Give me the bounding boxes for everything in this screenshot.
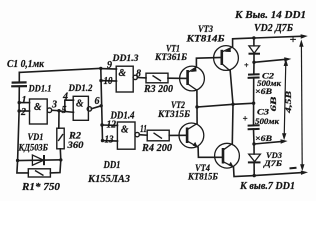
node: C3 / VD3 junction: [252, 142, 255, 145]
svg-text:&: &: [121, 124, 129, 136]
svg-text:2: 2: [20, 107, 26, 118]
wire VD3 top lead: [253, 144, 255, 154]
wire VT4 emitter down: [234, 167, 255, 177]
transistor VT1: [180, 66, 205, 91]
wire VT4 collector up: [231, 104, 234, 143]
svg-text:КТ815Б: КТ815Б: [187, 173, 218, 183]
wire R1 right leg: [50, 160, 60, 173]
svg-text:12: 12: [107, 120, 117, 131]
svg-text:DD1.3: DD1.3: [111, 54, 138, 64]
wire R2 top branch: [58, 111, 60, 129]
svg-text:К155ЛА3: К155ЛА3: [87, 173, 130, 185]
svg-text:9: 9: [107, 60, 112, 71]
arrowhead bottom rail: [301, 171, 308, 175]
node: pin 6 output junction: [100, 104, 103, 107]
wire pin 10: [101, 80, 117, 82]
svg-text:КТ814Б: КТ814Б: [185, 34, 224, 44]
svg-text:DD1: DD1: [103, 159, 121, 171]
svg-text:К выв.7 DD1: К выв.7 DD1: [239, 181, 295, 192]
wire pin 4 stub: [65, 100, 74, 112]
wire R4 to VT2 base: [169, 134, 187, 136]
svg-text:R3 200: R3 200: [143, 84, 174, 95]
resistor R2: [57, 128, 64, 149]
svg-text:6В: 6В: [268, 96, 278, 111]
wire VD3 bottom lead: [253, 163, 255, 175]
capacitor C3: [248, 125, 260, 129]
svg-text:11: 11: [140, 124, 147, 135]
wire C3 bottom lead: [253, 129, 256, 144]
svg-text:1: 1: [22, 95, 27, 106]
wire R2 bottom: [59, 149, 62, 160]
node: VD1-R1 left junction: [16, 159, 19, 162]
wire C1 top lead: [18, 72, 20, 82]
node: pin 10 junction: [99, 79, 102, 82]
wire VT1 emitter to VT3 base: [196, 58, 221, 68]
wire pin 9: [101, 68, 117, 70]
svg-text:×6В: ×6В: [255, 133, 272, 143]
transistor VT4: [215, 143, 240, 168]
svg-text:С1 0,1мк: С1 0,1мк: [7, 59, 45, 70]
svg-text:4: 4: [62, 92, 68, 103]
wire C1 bottom / left rail: [18, 86, 20, 160]
svg-text:R4 200: R4 200: [141, 143, 173, 154]
gate DD1.2: [73, 96, 91, 120]
node: VT3/VT4 collector junction: [231, 103, 234, 106]
arrowhead line2: [284, 57, 291, 61]
arrowhead line3: [281, 139, 288, 143]
wire C3 top lead: [253, 103, 255, 125]
svg-text:+: +: [243, 113, 248, 123]
svg-text:3: 3: [51, 100, 57, 111]
svg-text:КТ361Б: КТ361Б: [154, 53, 187, 63]
svg-text:360: 360: [66, 141, 83, 151]
wire DD1.4 out to R4: [139, 134, 147, 137]
wire VD1 horizontal: [18, 159, 61, 162]
svg-text:500мк: 500мк: [255, 117, 280, 126]
svg-text:КТ315Б: КТ315Б: [157, 110, 190, 120]
transistor VT2: [179, 123, 204, 148]
gate DD1.4: [117, 122, 139, 149]
wire output tap line2: [254, 59, 287, 62]
svg-text:&: &: [34, 101, 42, 113]
wire output tap line3: [254, 141, 283, 144]
svg-text:13: 13: [105, 135, 114, 146]
svg-text:К Выв. 14 DD1: К Выв. 14 DD1: [234, 10, 306, 21]
dimension arrow 6V: [282, 59, 288, 140]
wire DD1.3 out to R3: [137, 77, 146, 79]
wire VT2 emitter to VT4 base: [198, 147, 223, 157]
capacitor C2: [248, 74, 260, 78]
wire C2 top lead: [253, 62, 255, 74]
resistor R4: [147, 130, 169, 141]
svg-text:+: +: [290, 32, 297, 46]
node: C1 top / pin 9 junction: [99, 67, 102, 70]
svg-text:&: &: [119, 67, 127, 79]
svg-text:VD2 Д7Б: VD2 Д7Б: [254, 23, 294, 34]
svg-text:5: 5: [62, 105, 67, 116]
wire VT1 collector to VT2 collector: [196, 90, 198, 123]
wire top rail: [254, 36, 303, 38]
node: pin 2 junction: [17, 109, 20, 112]
node: pin 13 junction: [101, 139, 104, 142]
svg-text:+: +: [244, 61, 249, 70]
wire pin 1: [19, 102, 29, 104]
wire C2 bottom to mid node: [253, 78, 255, 104]
svg-text:DD1.1: DD1.1: [28, 84, 52, 94]
resistor R1: [28, 169, 50, 177]
minus bottom right: [290, 167, 297, 170]
wire pin 5: [59, 111, 74, 112]
wire pin 13: [103, 140, 118, 142]
svg-text:&: &: [76, 98, 84, 110]
arrowhead top rail: [301, 34, 308, 38]
wire VD2 top lead: [253, 38, 255, 46]
wire R3 to VT1 base: [168, 77, 187, 79]
svg-text:6: 6: [95, 96, 100, 107]
node: VD1-R1 right junction: [59, 158, 62, 161]
node: C2/C3 midpoint junction: [252, 102, 255, 105]
svg-text:Д7Б: Д7Б: [263, 158, 283, 168]
node line (DD1.2 out to DD1.3/DD1.4 inputs): [101, 68, 103, 140]
svg-text:DD1.2: DD1.2: [68, 84, 93, 94]
node: VD2 cathode / C2 junction: [252, 61, 255, 64]
wire pin 12: [102, 124, 118, 126]
svg-text:R1* 750: R1* 750: [21, 181, 61, 193]
wire VD2 bottom lead: [253, 54, 255, 62]
node: pin 1 junction: [18, 101, 21, 104]
wire C1 top to node line: [19, 68, 100, 72]
node: pin 12 junction: [100, 123, 103, 126]
wire bottom rail: [254, 173, 303, 176]
node: VD3 cathode / bottom rail junction: [253, 174, 256, 177]
gate DD1.1: [30, 99, 52, 124]
wire mid output to cap node: [197, 103, 254, 107]
diode VD1: [32, 155, 44, 165]
node: R2 top / pin 3 junction: [57, 109, 60, 112]
gate DD1.3: [116, 66, 137, 92]
svg-text:10: 10: [104, 76, 113, 87]
svg-text:4,5В: 4,5В: [283, 91, 293, 115]
wire pin 3 output: [52, 109, 59, 111]
svg-text:8: 8: [136, 68, 141, 79]
diode VD3: [248, 154, 261, 162]
resistor R3: [146, 73, 168, 83]
svg-text:КД503Б: КД503Б: [18, 144, 48, 154]
wire DD1.2 output pin 6: [91, 106, 101, 109]
dimension arrow 4,5V: [299, 40, 304, 172]
diode VD2: [249, 46, 261, 54]
wire VT3 collector down: [230, 71, 233, 104]
wire VT3 emitter to top rail: [233, 38, 254, 47]
wire R1 left leg: [17, 161, 28, 173]
svg-text:VD1: VD1: [28, 133, 44, 143]
node: VD2 anode / top rail junction: [252, 36, 255, 39]
capacitor C1: [11, 82, 27, 86]
node: VT1/VT2 collector junction: [195, 105, 198, 108]
transistor VT3: [214, 46, 239, 71]
wire pin 2: [19, 110, 29, 112]
svg-text:×6В: ×6В: [255, 86, 272, 96]
